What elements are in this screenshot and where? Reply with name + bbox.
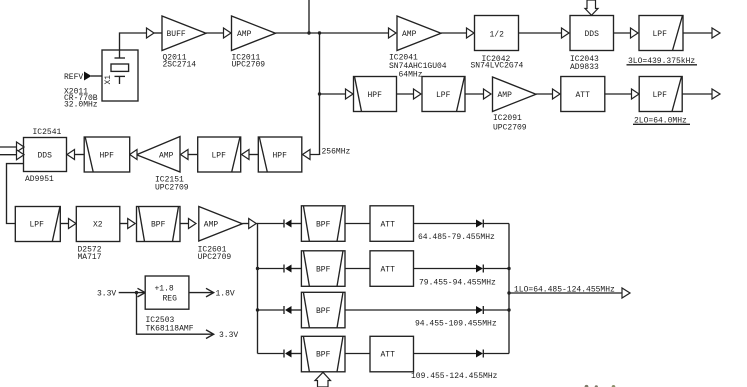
svg-text:ATT: ATT bbox=[576, 91, 591, 100]
wire DDS to row4 LPF bbox=[7, 164, 24, 224]
wire bbox=[519, 32, 563, 34]
right bus wire bbox=[508, 224, 510, 354]
junction bbox=[507, 291, 510, 294]
svg-text:BPF: BPF bbox=[316, 221, 331, 230]
junction bbox=[507, 308, 510, 311]
multiplier X2 D2572 bbox=[76, 207, 120, 263]
svg-text:BPF: BPF bbox=[316, 266, 331, 275]
svg-text:94.455-109.455MHz: 94.455-109.455MHz bbox=[415, 320, 497, 329]
svg-text:AMP: AMP bbox=[159, 152, 174, 161]
svg-text:UPC2709: UPC2709 bbox=[232, 61, 266, 70]
arrow to bank bus bbox=[249, 219, 257, 229]
svg-text:64MHz: 64MHz bbox=[399, 71, 423, 80]
wire to output bbox=[682, 93, 712, 95]
output wire 1.8V bbox=[189, 292, 214, 294]
wire bbox=[345, 223, 370, 225]
svg-text:ATT: ATT bbox=[381, 351, 396, 360]
wire bbox=[180, 223, 189, 225]
wire down to row2/row3 bbox=[319, 33, 321, 155]
svg-text:2SC2714: 2SC2714 bbox=[163, 61, 197, 70]
svg-text:UPC2709: UPC2709 bbox=[493, 123, 527, 132]
wire 3.3V passthrough bbox=[137, 293, 214, 335]
svg-text:1/2: 1/2 bbox=[490, 31, 505, 40]
wire to right bus bbox=[483, 223, 509, 225]
LPF row2 bbox=[422, 77, 465, 112]
svg-text:TK68118AMF: TK68118AMF bbox=[146, 324, 194, 333]
svg-text:X1: X1 bbox=[104, 75, 113, 85]
junction bbox=[135, 291, 138, 294]
arrow into AMP bbox=[189, 219, 197, 229]
BPF branch3 bbox=[301, 292, 345, 328]
wire (no ATT) bbox=[345, 309, 476, 311]
BPF row4 bbox=[137, 207, 181, 242]
svg-text:REFV: REFV bbox=[64, 73, 83, 82]
wire to right bus bbox=[483, 353, 509, 355]
wire bbox=[536, 93, 553, 95]
wire bbox=[206, 32, 224, 34]
arrow into DDS bbox=[67, 150, 75, 160]
REFV input arrow bbox=[64, 72, 102, 83]
svg-text:ATT: ATT bbox=[381, 266, 396, 275]
svg-text:LPF: LPF bbox=[436, 91, 451, 100]
svg-text:32.0MHz: 32.0MHz bbox=[64, 101, 98, 110]
svg-text:IC2091: IC2091 bbox=[493, 114, 522, 123]
arrow into AMP bbox=[484, 89, 492, 99]
wire bbox=[292, 309, 302, 311]
svg-text:LPF: LPF bbox=[653, 30, 668, 39]
arrow into LPF bbox=[632, 89, 640, 99]
diode D7 right bbox=[476, 306, 483, 314]
amp IC2041 bbox=[389, 16, 447, 80]
wire bbox=[120, 223, 128, 225]
junction bbox=[318, 92, 321, 95]
svg-text:DDS: DDS bbox=[38, 152, 53, 161]
diode D6 right bbox=[476, 265, 483, 273]
wire corner to HPF bbox=[310, 154, 320, 157]
wire bbox=[154, 32, 162, 34]
wire to output bbox=[683, 32, 712, 34]
arrow into BPF bbox=[128, 219, 136, 229]
svg-text:BUFF: BUFF bbox=[167, 30, 186, 39]
svg-text:ATT: ATT bbox=[381, 221, 396, 230]
svg-text:LPF: LPF bbox=[653, 91, 668, 100]
crystal X2011 box bbox=[102, 50, 138, 101]
diode D2 left bbox=[284, 265, 292, 273]
control arrow into BPF branch4 bottom bbox=[315, 372, 331, 387]
BPF branch2 bbox=[301, 251, 345, 286]
diode D5 right bbox=[476, 220, 483, 228]
svg-text:LPF: LPF bbox=[30, 221, 45, 230]
svg-text:HPF: HPF bbox=[100, 152, 115, 161]
svg-text:+1.8: +1.8 bbox=[155, 285, 174, 294]
control input arrow A bbox=[17, 142, 25, 152]
LPF row1 bbox=[639, 16, 683, 51]
arrow into AMP bbox=[224, 28, 232, 38]
svg-text:LPF: LPF bbox=[212, 152, 227, 161]
wire to right bus bbox=[483, 268, 509, 270]
control input wire B bbox=[0, 154, 17, 156]
junction bbox=[307, 31, 310, 34]
svg-text:AMP: AMP bbox=[237, 30, 252, 39]
svg-text:HPF: HPF bbox=[368, 91, 383, 100]
wire up to top edge bbox=[308, 0, 310, 33]
wire bbox=[397, 93, 415, 95]
control input wire A bbox=[0, 146, 17, 148]
HPF row3 right bbox=[258, 137, 302, 172]
svg-text:256MHz: 256MHz bbox=[322, 147, 351, 156]
wire crystal to buffer bbox=[120, 33, 148, 50]
diode D1 left bbox=[284, 220, 292, 228]
op-amp IC2011 bbox=[232, 16, 276, 70]
svg-text:AMP: AMP bbox=[498, 91, 513, 100]
wire bbox=[292, 353, 302, 355]
arrow into HPF bbox=[346, 89, 354, 99]
amp IC2151 (points left) bbox=[137, 137, 189, 193]
wire bbox=[345, 268, 370, 270]
crystal symbol inside X2011 bbox=[111, 50, 129, 84]
junction bbox=[507, 267, 510, 270]
arrow into LPF bbox=[242, 150, 250, 160]
svg-text:3.3V: 3.3V bbox=[219, 331, 238, 340]
diode D8 right bbox=[476, 350, 483, 358]
svg-text:BPF: BPF bbox=[316, 351, 331, 360]
wire bbox=[614, 32, 632, 34]
DDS IC2043 bbox=[570, 16, 614, 72]
HPF row3 left bbox=[84, 137, 130, 172]
arrow into AMP bbox=[181, 150, 189, 160]
wire bbox=[414, 223, 477, 225]
arrow into LPF bbox=[631, 28, 639, 38]
svg-text:64.485-79.455MHz: 64.485-79.455MHz bbox=[418, 233, 495, 242]
svg-text:109.455-124.455MHz: 109.455-124.455MHz bbox=[411, 372, 498, 381]
wire AMP to IC2041 arrow bbox=[276, 32, 390, 34]
wire bbox=[249, 154, 258, 156]
buffer Q2011 bbox=[162, 16, 206, 70]
attenuator ATT row2 bbox=[561, 77, 605, 112]
junction bbox=[256, 308, 259, 311]
svg-text:REG: REG bbox=[163, 295, 178, 304]
arrow 1.8V bbox=[206, 288, 214, 297]
left bus wire bbox=[256, 224, 257, 354]
wire bbox=[60, 223, 69, 225]
LPF row4 bbox=[15, 207, 60, 242]
svg-text:SN74LVC2G74: SN74LVC2G74 bbox=[471, 62, 524, 71]
svg-text:AMP: AMP bbox=[204, 221, 219, 230]
svg-text:IC2541: IC2541 bbox=[33, 128, 62, 137]
wire bbox=[345, 353, 370, 355]
branch 3 wire bbox=[258, 309, 285, 311]
wire bbox=[605, 93, 632, 95]
LPF row3 bbox=[198, 137, 241, 172]
wire bbox=[119, 292, 146, 294]
svg-text:UPC2709: UPC2709 bbox=[155, 184, 189, 193]
arrow into HPF bbox=[303, 150, 311, 160]
svg-text:HPF: HPF bbox=[273, 152, 288, 161]
wire bbox=[465, 93, 484, 95]
attenuator ATT branch1 bbox=[370, 206, 414, 242]
branch 1 wire bbox=[258, 223, 285, 225]
LPF row2 out bbox=[639, 77, 682, 112]
wire bbox=[188, 154, 198, 156]
attenuator ATT branch2 bbox=[370, 251, 414, 286]
arrow into REG bbox=[138, 288, 146, 297]
wire bbox=[414, 353, 477, 355]
wire to HPF arrow bbox=[320, 93, 347, 95]
svg-text:79.455-94.455MHz: 79.455-94.455MHz bbox=[419, 278, 496, 287]
wire bbox=[414, 268, 477, 270]
wire to right bus bbox=[483, 309, 509, 311]
HPF row2 bbox=[354, 77, 397, 112]
svg-text:AMP: AMP bbox=[402, 30, 417, 39]
BPF branch1 bbox=[301, 206, 345, 242]
wire bbox=[292, 223, 302, 225]
X2011 value labels bbox=[64, 88, 98, 110]
arrow into LPF bbox=[414, 89, 422, 99]
arrow into DDS bbox=[562, 28, 570, 38]
amp IC2601 bbox=[198, 207, 243, 263]
output wire 1LO bbox=[509, 292, 622, 294]
amp IC2091 bbox=[493, 77, 537, 132]
junction bbox=[256, 267, 259, 270]
control input arrow B bbox=[17, 150, 25, 160]
output arrow 3LO bbox=[712, 28, 720, 38]
watermark remnant bbox=[585, 385, 616, 387]
arrow into IC2041 bbox=[389, 28, 397, 38]
branch 2 wire bbox=[258, 268, 285, 270]
svg-text:AD9951: AD9951 bbox=[25, 175, 54, 184]
output arrow 2LO bbox=[712, 89, 720, 99]
divider 1/2 IC2042 bbox=[471, 16, 524, 71]
arrow into 1/2 bbox=[467, 28, 475, 38]
wire bbox=[242, 223, 249, 225]
svg-text:1.8V: 1.8V bbox=[216, 290, 235, 299]
diode D3 left bbox=[284, 306, 292, 314]
svg-text:X2: X2 bbox=[93, 221, 103, 230]
svg-text:3.3V: 3.3V bbox=[97, 290, 116, 299]
control arrow into DDS top bbox=[585, 0, 598, 15]
svg-text:1LO=64.485-124.455MHz: 1LO=64.485-124.455MHz bbox=[514, 286, 615, 295]
svg-text:UPC2709: UPC2709 bbox=[198, 253, 232, 262]
node 2LO label bbox=[633, 116, 690, 125]
BPF branch4 bbox=[301, 336, 345, 372]
branch 4 wire bbox=[258, 353, 285, 355]
svg-text:BPF: BPF bbox=[316, 307, 331, 316]
junction bbox=[318, 31, 321, 34]
diode D4 left bbox=[284, 350, 292, 358]
wire bbox=[292, 268, 302, 270]
attenuator ATT branch4 bbox=[370, 336, 414, 372]
regulator IC2503 bbox=[145, 276, 194, 333]
output arrow 1LO bbox=[622, 288, 630, 298]
svg-text:AD9833: AD9833 bbox=[570, 63, 599, 72]
arrow into ATT bbox=[553, 89, 561, 99]
svg-text:DDS: DDS bbox=[585, 30, 600, 39]
DDS IC2541 bbox=[24, 128, 67, 184]
arrow 3.3V bbox=[206, 330, 214, 339]
arrow into HPF left bbox=[130, 150, 137, 160]
wire bbox=[441, 32, 467, 34]
svg-text:BPF: BPF bbox=[151, 221, 166, 230]
wire bbox=[75, 154, 85, 156]
svg-text:MA717: MA717 bbox=[78, 253, 102, 262]
node 3LO label bbox=[627, 57, 698, 66]
arrow into BUFF bbox=[147, 28, 155, 38]
arrow into X2 bbox=[69, 219, 77, 229]
